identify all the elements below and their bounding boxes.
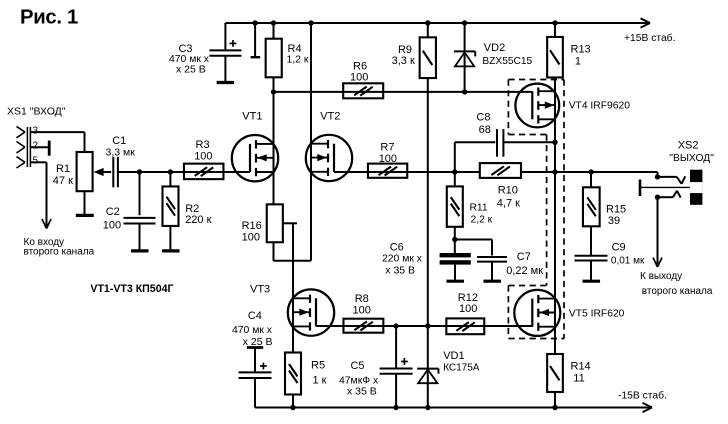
svg-text:R16: R16	[242, 220, 262, 232]
svg-text:68: 68	[479, 124, 491, 136]
svg-text:R8: R8	[355, 293, 369, 305]
svg-text:R5: R5	[311, 360, 325, 372]
svg-text:+15В стаб.: +15В стаб.	[624, 32, 675, 44]
svg-text:3,3 мк: 3,3 мк	[106, 147, 136, 159]
svg-text:второго канала: второго канала	[24, 247, 95, 258]
svg-text:Рис. 1: Рис. 1	[20, 6, 78, 28]
svg-text:R11: R11	[470, 203, 488, 214]
svg-text:220 к: 220 к	[185, 214, 211, 226]
svg-text:VD1: VD1	[443, 350, 464, 362]
svg-text:0,01 мк: 0,01 мк	[611, 255, 645, 266]
svg-text:39: 39	[608, 215, 620, 227]
svg-text:C5: C5	[350, 360, 364, 372]
svg-text:2,2 к: 2,2 к	[471, 215, 493, 226]
svg-text:VD2: VD2	[484, 42, 505, 54]
svg-text:C2: C2	[106, 206, 120, 218]
svg-text:R4: R4	[288, 43, 302, 55]
svg-text:КС175А: КС175А	[443, 362, 480, 373]
svg-text:1,2 к: 1,2 к	[287, 55, 309, 66]
svg-text:C9: C9	[612, 242, 626, 254]
svg-text:второго канала: второго канала	[642, 286, 713, 297]
svg-text:C4: C4	[248, 310, 262, 322]
svg-text:C1: C1	[112, 135, 126, 147]
svg-text:100: 100	[350, 72, 368, 84]
svg-text:R3: R3	[196, 139, 210, 151]
svg-text:VT4 IRF9620: VT4 IRF9620	[569, 101, 631, 112]
svg-text:XS2: XS2	[678, 140, 699, 152]
svg-text:100: 100	[242, 232, 260, 244]
svg-text:VT5 IRF620: VT5 IRF620	[569, 308, 625, 319]
svg-text:C6: C6	[390, 242, 404, 254]
svg-text:К выходу: К выходу	[640, 271, 682, 282]
svg-text:100: 100	[194, 151, 212, 163]
svg-text:2: 2	[33, 140, 39, 151]
svg-text:C8: C8	[476, 112, 490, 124]
svg-text:3: 3	[33, 126, 39, 137]
svg-text:4,7 к: 4,7 к	[497, 198, 520, 210]
svg-text:100: 100	[459, 303, 477, 315]
svg-text:"ВЫХОД": "ВЫХОД"	[669, 153, 714, 164]
svg-text:XS1 "ВХОД": XS1 "ВХОД"	[7, 105, 66, 117]
svg-text:1: 1	[575, 56, 581, 68]
svg-text:C7: C7	[517, 251, 531, 263]
svg-text:R14: R14	[571, 361, 591, 373]
svg-text:BZX55C15: BZX55C15	[482, 56, 532, 67]
svg-text:R10: R10	[498, 185, 518, 197]
svg-text:х 35 В: х 35 В	[347, 386, 377, 398]
svg-text:-15В стаб.: -15В стаб.	[618, 390, 667, 402]
svg-text:VT2: VT2	[320, 111, 340, 123]
svg-text:100: 100	[103, 219, 121, 231]
svg-text:470 мк х: 470 мк х	[232, 325, 273, 336]
svg-text:3,3 к: 3,3 к	[392, 55, 415, 67]
svg-text:VT1-VT3 КП504Г: VT1-VT3 КП504Г	[90, 283, 173, 295]
svg-text:0,22 мк: 0,22 мк	[506, 265, 543, 277]
svg-text:100: 100	[379, 153, 397, 165]
svg-text:47 к: 47 к	[53, 175, 73, 187]
svg-text:х 25 В: х 25 В	[176, 64, 206, 76]
svg-text:100: 100	[353, 305, 371, 317]
svg-text:11: 11	[573, 373, 584, 385]
svg-text:VT3: VT3	[250, 284, 270, 296]
svg-text:х 35 В: х 35 В	[385, 265, 415, 277]
svg-text:R1: R1	[56, 163, 70, 175]
svg-text:R7: R7	[380, 142, 394, 154]
svg-text:R13: R13	[571, 44, 591, 56]
svg-text:1 к: 1 к	[313, 375, 327, 387]
svg-text:х 25 В: х 25 В	[243, 336, 273, 348]
svg-text:220 мк х: 220 мк х	[382, 254, 423, 265]
svg-text:R15: R15	[606, 204, 626, 216]
svg-text:VT1: VT1	[242, 111, 262, 123]
svg-text:5: 5	[33, 155, 39, 166]
